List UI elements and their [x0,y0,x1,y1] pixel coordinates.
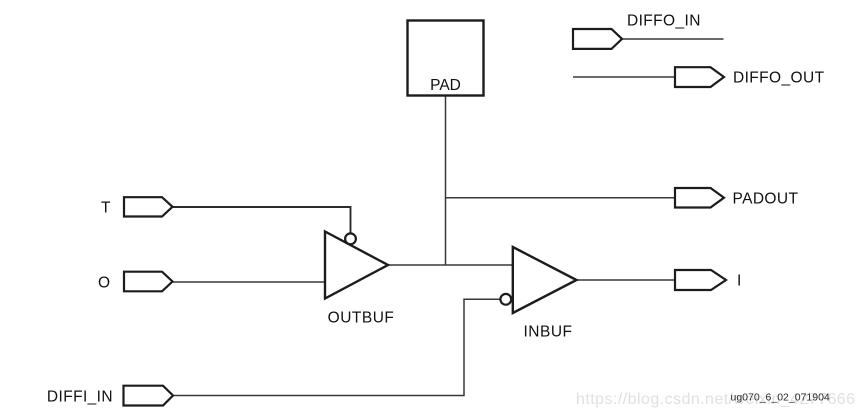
wire PADOUT branch [446,197,676,199]
input port DIFFO_IN [573,29,622,49]
output port DIFFO_OUT [675,67,724,87]
svg-text:PADOUT: PADOUT [733,190,799,207]
wire PAD vertical [445,96,447,266]
input port DIFFI_IN [124,386,174,406]
inverter bubble on INBUF [500,294,511,305]
wire INBUF output to I [577,279,676,281]
output port PADOUT [675,188,724,208]
svg-text:DIFFI_IN: DIFFI_IN [47,389,113,406]
svg-text:OUTBUF: OUTBUF [328,310,395,327]
pad box PAD [408,21,484,96]
wire DIFFO_IN [622,38,724,40]
svg-text:DIFFO_OUT: DIFFO_OUT [733,70,825,87]
svg-text:INBUF: INBUF [524,324,573,341]
wire DIFFI_IN to INBUF bubble [173,299,500,395]
input port O [124,272,173,292]
wire T to OUTBUF bubble [173,207,351,233]
svg-text:PAD: PAD [430,77,461,94]
buffer INBUF [513,247,577,313]
wire OUTBUF output to INBUF input [388,264,513,266]
wire O to OUTBUF input [173,281,326,283]
inverter bubble on OUTBUF [345,233,356,244]
svg-text:ug070_6_02_071904: ug070_6_02_071904 [731,391,830,403]
svg-text:DIFFO_IN: DIFFO_IN [627,13,701,30]
wire DIFFO_OUT [573,76,675,78]
svg-text:O: O [98,274,110,291]
svg-text:I: I [737,273,741,290]
buffer OUTBUF [325,232,388,299]
svg-text:T: T [101,200,111,217]
input port T [124,197,173,216]
output port I [675,270,726,290]
